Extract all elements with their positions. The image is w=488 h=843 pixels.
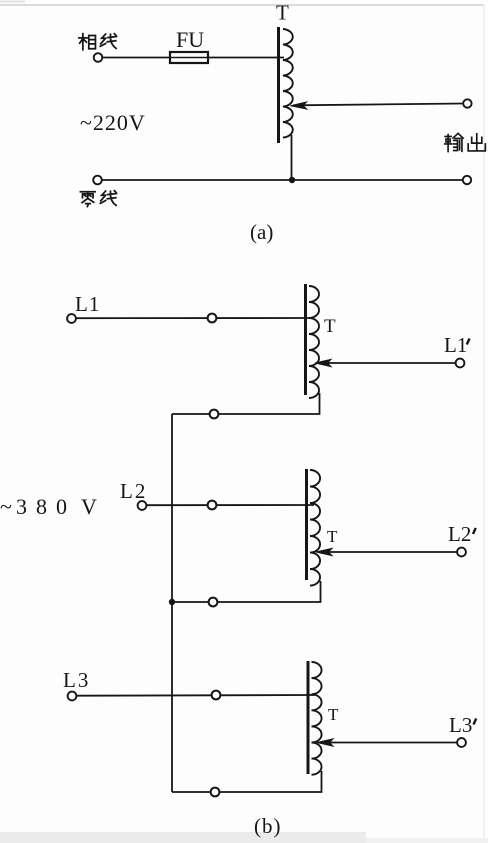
svg-text:L2: L2 [120,479,147,503]
transformer T1 core [304,284,307,395]
connector circle on L3 wire [212,691,221,700]
scan border artifacts (decorative) [0,4,484,6]
label 零线 (neutral line) [80,191,116,207]
transformer T winding (a) [283,29,293,138]
svg-text:T: T [327,527,338,546]
terminal: output bottom [463,176,471,184]
svg-text:L2: L2 [448,522,471,546]
connector circle on T3 bottom wire [211,788,220,797]
connector circle on T1 bottom wire [210,410,219,419]
terminal L2' [457,548,466,557]
wiper arrow (a) [291,102,464,109]
svg-text:L1: L1 [75,292,100,316]
wire: winding bottom down to neutral [291,135,293,180]
terminal L2 [138,501,147,510]
wire: neutral line [102,179,463,181]
svg-text:FU: FU [176,27,204,52]
transformer T2 winding [310,470,320,586]
svg-text:L3: L3 [449,713,472,737]
svg-text:(a): (a) [250,220,273,244]
wiper arrow T2 [316,548,457,555]
junction: bus and T2 bottom [169,599,175,605]
label 相线 (phase line) [79,34,116,50]
label 输出 (output) [445,133,486,151]
wiper arrow T3 [317,739,457,746]
terminal: neutral left [93,176,102,185]
terminal L1' [456,359,465,368]
svg-text:L3: L3 [63,668,90,692]
svg-text:(b): (b) [254,814,282,838]
terminal: output top [463,99,471,107]
svg-text:T: T [328,705,339,724]
connector circle on L1 wire [208,314,217,323]
svg-text:L1: L1 [444,333,467,357]
wire T1 winding bottom [172,393,320,414]
terminal L3 [68,692,77,701]
wire T2 winding bottom [172,581,321,602]
transformer T1 winding [309,286,319,398]
wire: star bus [171,414,173,792]
terminal: phase input [94,53,103,62]
svg-text:~380V: ~380V [0,494,97,519]
terminal L3' [457,738,466,747]
transformer T3 core [307,661,310,774]
fuse FU [170,52,208,63]
junction: neutral tap [289,177,295,183]
wire L1 to T1 [76,317,313,319]
wire: fuse to transformer T [208,57,284,59]
connector circle on L2 wire [208,501,217,510]
transformer T3 winding [312,662,322,775]
transformer T2 core [305,469,308,580]
terminal L1 [67,314,76,323]
wire T3 winding bottom [172,771,322,792]
transformer T core (a) [277,27,280,143]
wiper arrow T1 [315,359,456,366]
wire L3 to T3 [77,694,316,697]
wire: phase terminal to fuse [103,57,171,59]
wire L2 to T2 [147,504,315,506]
connector circle on T2 bottom wire [209,598,218,607]
svg-text:T: T [324,316,336,337]
svg-text:~220V: ~220V [80,110,146,135]
svg-text:T: T [276,1,289,25]
